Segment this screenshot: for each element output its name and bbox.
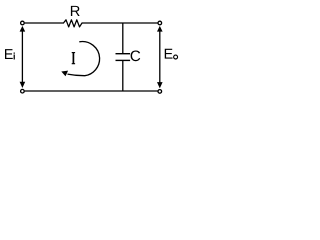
label Eo	[165, 49, 173, 59]
capacitor C lead bottom	[122, 60, 124, 91]
resistor label R	[71, 6, 80, 16]
wire top-right (resistor to right terminal)	[82, 22, 158, 24]
wire top-left (terminal to resistor)	[25, 22, 64, 24]
label Ei	[5, 49, 13, 59]
terminal bottom-left	[21, 89, 25, 93]
Eo voltage arrow line	[159, 30, 161, 85]
wire bottom	[25, 90, 158, 92]
Ei voltage arrow line	[21, 30, 23, 85]
loop current arrowhead	[61, 71, 68, 77]
capacitor C lead top	[122, 23, 124, 54]
capacitor C bottom plate	[116, 59, 131, 61]
Ei arrowhead up	[20, 26, 26, 32]
terminal top-right	[158, 21, 162, 25]
Eo arrowhead down	[157, 82, 163, 88]
terminal top-left	[21, 21, 25, 25]
capacitor C top plate	[116, 53, 131, 55]
Ei arrowhead down	[20, 82, 26, 88]
capacitor label C	[131, 50, 141, 61]
loop current arc	[68, 42, 100, 76]
resistor R	[64, 20, 83, 27]
Eo arrowhead up	[157, 26, 163, 32]
label I	[72, 53, 74, 64]
terminal bottom-right	[158, 90, 162, 94]
